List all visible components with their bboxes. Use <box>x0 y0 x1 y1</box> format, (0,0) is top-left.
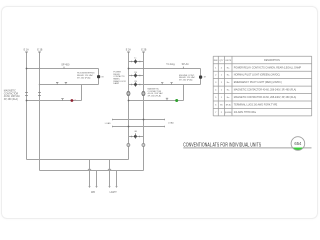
junction L1-rung3 <box>26 100 28 102</box>
table units column <box>225 67 232 114</box>
wire drop LIGHT b <box>116 171 118 188</box>
svg-text:MAGNETIC: MAGNETIC <box>4 89 16 92</box>
wire rung3 left <box>27 100 82 102</box>
wire rung2 mid <box>129 84 201 86</box>
svg-text:85: 85 <box>220 105 223 107</box>
contact T1 <box>56 82 58 84</box>
annotation magnetic contactor left <box>4 89 21 101</box>
svg-text:TERMINAL LUGS 2/0 AWG FORK TYP: TERMINAL LUGS 2/0 AWG FORK TYPE <box>234 104 278 107</box>
table qty column <box>220 67 223 114</box>
svg-text:Ea.: Ea. <box>227 90 230 92</box>
hop LIGHT a <box>108 169 111 170</box>
wire L4 feeder vertical <box>143 52 145 171</box>
wire drop to rung3 <box>81 85 83 101</box>
svg-text:MAGNETIC CONTACTOR 40-60, 208-: MAGNETIC CONTACTOR 40-60, 208-240V, 3P, … <box>234 96 297 99</box>
svg-text:(LBSM): (LBSM) <box>225 112 232 114</box>
svg-text:UNITS: UNITS <box>225 60 232 62</box>
title underline <box>183 147 311 149</box>
fuse F2 <box>134 73 137 77</box>
arrowhead LIGHT a <box>109 186 111 187</box>
terminal tick L4 <box>142 51 145 53</box>
contact T4 <box>161 82 163 84</box>
svg-text:3P, 450 (FLA): 3P, 450 (FLA) <box>77 77 91 80</box>
svg-text:T-1 Eng.: T-1 Eng. <box>166 63 175 66</box>
svg-text:POWER RELAY CONTACTS CAMION, R: POWER RELAY CONTACTS CAMION, REAR (LEGAL… <box>234 66 302 69</box>
indicator lamp red R1 <box>71 99 74 102</box>
tick branch2 a <box>131 75 133 77</box>
junction L3-rung3 <box>128 100 130 102</box>
svg-text:NORMAL PILOT LIGHT (GREEN) (24: NORMAL PILOT LIGHT (GREEN) (24VDC) <box>234 74 280 77</box>
svg-text:1M: 1M <box>134 72 137 74</box>
table ref column <box>215 67 217 114</box>
svg-text:2: 2 <box>221 112 223 114</box>
tick branch1 b <box>139 61 141 63</box>
relay coil K1 <box>97 75 100 78</box>
svg-text:E 2B: E 2B <box>141 49 147 52</box>
wire drop to rung3 mid <box>183 85 185 101</box>
hop WR a <box>88 169 91 170</box>
wire rung3 mid <box>129 100 184 102</box>
wire rung SP450 <box>27 68 99 70</box>
svg-text:GB: GB <box>134 131 137 133</box>
svg-text:3: 3 <box>215 82 217 84</box>
svg-text:40-60, 208 VAC: 40-60, 208 VAC <box>4 95 21 98</box>
table header text <box>214 60 280 62</box>
contact T2 <box>65 82 67 84</box>
badge circle ring <box>291 137 305 151</box>
svg-text:M: M <box>102 76 104 78</box>
junction L1-rung <box>26 68 28 70</box>
contact 2M on L2 <box>38 93 41 96</box>
contact T6 <box>166 98 168 100</box>
arrowhead WR b <box>96 186 98 187</box>
relay coil K2 <box>199 76 202 79</box>
wire bus upper <box>27 159 129 161</box>
svg-text:Ea.: Ea. <box>227 82 230 84</box>
arrowhead WR a <box>89 186 91 187</box>
svg-text:SP-A4: SP-A4 <box>182 63 190 66</box>
svg-text:3P, 450 (FLA): 3P, 450 (FLA) <box>179 79 193 82</box>
pilot light P3 <box>127 144 130 147</box>
svg-text:CONTACTOR: CONTACTOR <box>4 92 19 95</box>
annotation power relay contacts <box>113 72 126 86</box>
wire load upper <box>113 119 165 121</box>
annotation magnetic contactor mid <box>148 87 164 97</box>
arrowhead LIGHT b <box>116 186 118 187</box>
pilot light P2 <box>142 91 145 95</box>
junction L2-rung <box>39 68 41 70</box>
contact 1M on L1 <box>25 93 28 96</box>
svg-text:1: 1 <box>221 90 223 92</box>
svg-text:7: 7 <box>215 112 217 114</box>
contact T5 <box>170 82 172 84</box>
svg-text:3P, 460 (FLA): 3P, 460 (FLA) <box>4 98 18 101</box>
svg-text:2: 2 <box>221 67 223 69</box>
terminal tick L2 <box>38 51 41 53</box>
fuse F1 <box>134 59 137 63</box>
tick load upper left <box>112 119 114 121</box>
terminal tick L3 <box>127 51 130 53</box>
svg-text:6: 6 <box>215 105 217 107</box>
tick load lower right <box>164 126 166 128</box>
svg-text:SP 450: SP 450 <box>61 63 70 66</box>
svg-text:M: M <box>204 77 206 79</box>
svg-text:E 1B: E 1B <box>37 49 43 52</box>
tick rung2m a <box>131 84 133 86</box>
tick load lower left <box>112 126 114 128</box>
table description column <box>234 66 302 114</box>
wire drop WR b <box>96 171 98 188</box>
svg-text:E 2A: E 2A <box>126 49 132 52</box>
junction L3-load lower <box>128 126 130 128</box>
junction L4-rung <box>143 68 145 70</box>
wire load lower <box>113 126 165 128</box>
svg-text:2M: 2M <box>134 81 137 83</box>
svg-text:LOAD: LOAD <box>168 121 174 124</box>
svg-text:QTY: QTY <box>219 60 224 62</box>
wire loop drop engine <box>200 69 202 85</box>
svg-text:5: 5 <box>215 97 217 99</box>
svg-text:EMERGENCY PILOT LIGHT (RED) (2: EMERGENCY PILOT LIGHT (RED) (24VDC) <box>234 81 282 84</box>
junction L3-rung <box>128 68 130 70</box>
wire meter branch <box>129 136 144 138</box>
wire rung2 left <box>40 84 99 86</box>
meter M1 <box>134 135 137 138</box>
indicator lamp green G1 <box>175 99 178 102</box>
svg-text:DESCRIPTION: DESCRIPTION <box>264 60 280 62</box>
svg-text:Ea.: Ea. <box>227 67 230 69</box>
svg-text:4: 4 <box>215 90 217 92</box>
stem meter M1 <box>134 133 136 138</box>
tick rung2m b <box>139 84 141 86</box>
wire drop LIGHT a <box>109 160 111 188</box>
tap tick SP-A4 <box>182 67 184 69</box>
terminal tick L1 <box>25 51 28 53</box>
svg-text:2: 2 <box>215 75 217 77</box>
svg-text:E 1A: E 1A <box>24 49 30 52</box>
svg-text:2/0 AWG THHN Wire: 2/0 AWG THHN Wire <box>234 111 257 114</box>
svg-text:1x: 1x <box>134 57 136 59</box>
badge circle fill <box>291 137 305 151</box>
tick meter b <box>139 136 141 138</box>
tick load upper right <box>164 119 166 121</box>
svg-text:REF: REF <box>214 60 219 62</box>
annotation engine control <box>179 75 196 82</box>
wire loop drop right <box>98 69 100 85</box>
junction L2-rung2 <box>39 84 41 86</box>
svg-text:Ea.: Ea. <box>227 75 230 77</box>
svg-text:(FLB): (FLB) <box>226 105 231 107</box>
wire L2 feeder vertical <box>39 52 41 171</box>
bill of materials table grid <box>213 56 312 116</box>
svg-text:1: 1 <box>215 67 217 69</box>
svg-text:Ea.: Ea. <box>227 97 230 99</box>
svg-text:1: 1 <box>221 97 223 99</box>
annotation housekeeping relay <box>77 73 95 80</box>
contact T3 <box>61 98 63 100</box>
pilot light P1 <box>127 91 130 95</box>
svg-text:WR: WR <box>91 191 95 194</box>
svg-text:DAMP: DAMP <box>113 82 120 85</box>
svg-text:1: 1 <box>221 75 223 77</box>
tick meter a <box>130 136 132 138</box>
svg-text:CONVENTIONAL ATS FOR INDIVIDUA: CONVENTIONAL ATS FOR INDIVIDUAL UNITS <box>183 142 261 148</box>
wire branch1 mid <box>129 61 144 63</box>
svg-text:654: 654 <box>294 141 302 146</box>
wire branch2 mid <box>129 75 144 77</box>
svg-text:3P, 460 (FLA): 3P, 460 (FLA) <box>148 95 162 98</box>
fuse F3 <box>134 82 137 86</box>
badge green chord <box>291 137 304 150</box>
wire L1 feeder vertical <box>26 52 28 160</box>
junction L4-load upper <box>143 119 145 121</box>
wire drop WR a <box>89 160 91 188</box>
svg-text:MAGNETIC CONTACTOR 40-60, 208-: MAGNETIC CONTACTOR 40-60, 208-240V, 3P, … <box>234 89 297 92</box>
wire L3 feeder vertical <box>128 52 130 160</box>
tap tick SP450 <box>63 67 65 69</box>
svg-text:LOAD: LOAD <box>105 122 111 125</box>
tick branch1 a <box>131 61 133 63</box>
tick branch2 b <box>139 75 141 77</box>
pilot light P4 <box>142 144 145 147</box>
wire bus lower <box>40 170 144 172</box>
svg-text:1: 1 <box>221 82 223 84</box>
wire rung engine <box>129 68 201 70</box>
svg-text:LIGHT: LIGHT <box>110 191 118 194</box>
